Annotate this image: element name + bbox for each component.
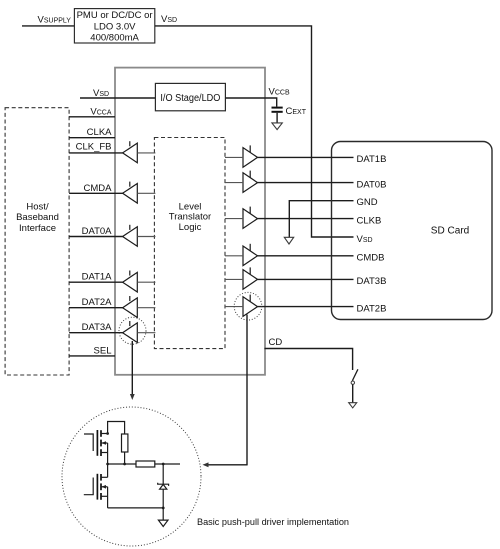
svg-text:Baseband: Baseband [16,212,59,223]
wire DAT0A [69,236,123,238]
driver detail dotted circle [62,407,201,546]
buffer DAT1B (right) [225,145,332,167]
svg-text:Level: Level [179,201,202,212]
svg-text:CD: CD [269,337,283,348]
wire bottom rail [108,507,164,509]
ground (GND pin net) [284,201,353,244]
highlight circle around DAT2B buffer [234,292,262,320]
svg-text:SEL: SEL [94,345,112,356]
resistor R1 (vertical) [122,434,128,452]
svg-text:CLKB: CLKB [357,215,382,226]
wire CD net [265,349,353,371]
svg-text:LDO 3.0V: LDO 3.0V [94,21,136,32]
level translator logic dashed box [154,138,225,349]
svg-text:Basic push-pull driver impleme: Basic push-pull driver implementation [197,517,349,528]
buffer DAT3B (right) [225,267,332,289]
svg-text:CLK_FB: CLK_FB [76,142,112,153]
svg-text:CLKA: CLKA [87,127,112,138]
IC U1 level translator box [115,68,265,375]
svg-text:400/800mA: 400/800mA [90,33,139,44]
transistor Q2 (bottom NMOS) [84,474,108,500]
svg-text:DAT3B: DAT3B [357,276,387,287]
buffer DAT2B (right, circled) [225,295,332,317]
wire mid rail [108,463,136,465]
wire VCCB net [225,98,276,107]
buffer CLK_FB (left) [123,141,156,163]
wire arrow from DAT3A buffer to driver detail [130,341,135,400]
regulator I/O Stage/LDO box [155,83,225,110]
capacitor CEXT [272,107,283,109]
wire Q2 drain to rail [107,464,109,477]
pin CMDB [332,255,354,257]
svg-text:Host/: Host/ [26,201,49,212]
pin DAT1B [332,156,354,158]
buffer CMDB (right) [225,244,332,266]
highlight circle around DAT3A buffer [119,317,146,344]
wire DAT1A [69,281,123,283]
svg-text:SD Card: SD Card [431,226,470,237]
svg-text:Logic: Logic [179,222,202,233]
wire VSD net top rail [155,26,354,237]
wire VCCA [69,116,115,118]
wire DAT3A [69,332,123,334]
wire Q1 drain loop to R1 [108,422,125,435]
buffer DAT0A (left) [123,225,156,247]
wire SEL [69,355,115,357]
svg-text:CMDB: CMDB [357,253,385,264]
wire VSD into I/O stage [80,97,155,99]
wire VSUPPLY input [22,25,74,27]
wire DAT2A [69,307,123,309]
wire arrow from DAT2B buffer into driver detail [203,315,248,468]
switch S1 card detect [351,369,358,402]
ground (switch) [349,403,357,408]
resistor R2 (horizontal) [136,461,155,467]
buffer DAT0B (right) [225,171,332,193]
svg-text:DAT2B: DAT2B [357,303,387,314]
svg-text:DAT1B: DAT1B [357,154,387,165]
node rail junction dots [106,463,109,466]
wire CLKA [69,137,115,139]
svg-text:Interface: Interface [19,223,56,234]
wire CMDA [69,192,123,194]
ground (driver bottom) [158,508,168,527]
wire Q1 source to rail [107,443,109,464]
svg-text:DAT2A: DAT2A [82,297,113,308]
diode D1 zener clamp [158,464,169,508]
svg-text:GND: GND [357,197,378,208]
SD card box [332,142,493,320]
ground (CEXT) [272,123,282,130]
wire Q2 source to bottom rail [107,487,109,508]
host/baseband dashed box [5,108,69,375]
buffer CMDA (left) [123,182,156,204]
buffer DAT1A (left) [123,271,156,293]
svg-text:DAT3A: DAT3A [82,322,113,333]
regulator U2 PMU box [74,9,154,43]
buffer DAT3A (left, circled) [123,321,156,343]
pin DAT3B [332,278,354,280]
transistor Q1 (top PMOS) [84,430,108,456]
svg-text:DAT0A: DAT0A [82,226,113,237]
svg-text:I/O Stage/LDO: I/O Stage/LDO [160,93,220,104]
pin DAT2B [332,306,354,308]
svg-text:Translator: Translator [169,212,211,223]
pin DAT0B [332,182,354,184]
svg-text:CMDA: CMDA [84,183,113,194]
svg-text:PMU or DC/DC or: PMU or DC/DC or [77,10,153,21]
buffer DAT2A (left) [123,296,156,318]
buffer CLKB (right) [225,207,332,229]
pin CLKB [332,218,354,220]
svg-text:DAT1A: DAT1A [82,272,113,283]
wire CLK_FB [69,152,123,154]
svg-text:DAT0B: DAT0B [357,179,387,190]
